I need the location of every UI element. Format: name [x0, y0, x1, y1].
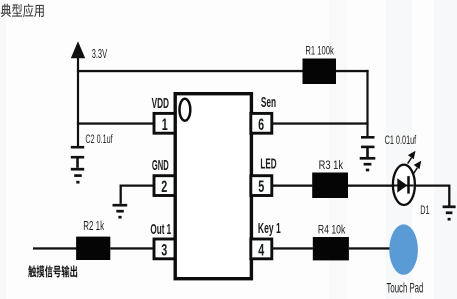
LED D1 cathode bar — [407, 176, 410, 194]
wire: LED to right ground — [415, 186, 450, 206]
capacitor C2 — [71, 147, 84, 168]
power symbol 3.3V — [71, 41, 85, 58]
touch pad — [389, 224, 418, 274]
LED D1 circle — [393, 165, 415, 205]
svg-text:Key 1: Key 1 — [258, 220, 281, 237]
wire: left vertical rail — [77, 56, 79, 146]
svg-text:2: 2 — [161, 178, 167, 196]
ground (pin 2) — [113, 205, 128, 217]
label 触摸信号输出 — [28, 265, 77, 277]
svg-text:4: 4 — [258, 241, 265, 259]
wire: R2 to pin 3 — [110, 247, 154, 249]
svg-text:Touch Pad: Touch Pad — [387, 281, 424, 296]
svg-text:3: 3 — [161, 241, 167, 259]
svg-text:C1 0.01uf: C1 0.01uf — [385, 133, 417, 147]
wire: output line left — [33, 247, 77, 249]
wire: VDD wire to pin 1 — [77, 122, 154, 124]
wire: R4 to touch pad — [349, 247, 390, 249]
capacitor C1 — [361, 137, 375, 157]
title 典型应用 — [1, 4, 44, 18]
wire: Sen to junction — [272, 122, 369, 124]
svg-text:GND: GND — [152, 157, 169, 174]
svg-text:R4 10k: R4 10k — [318, 222, 346, 236]
resistor R1 — [303, 59, 337, 85]
svg-text:R2 1k: R2 1k — [83, 219, 104, 233]
svg-text:5: 5 — [258, 178, 264, 196]
ground (right of D1) — [443, 207, 456, 219]
svg-text:C2 0.1uf: C2 0.1uf — [85, 132, 113, 146]
pin 4 box — [251, 239, 272, 259]
svg-text:R3 1k: R3 1k — [319, 158, 344, 172]
wire: GND pin 2 to ground — [121, 186, 154, 204]
svg-text:LED: LED — [260, 157, 276, 173]
pin 1 indicator circle — [180, 99, 191, 121]
wire: R3 to LED — [348, 185, 393, 187]
svg-text:Sen: Sen — [261, 95, 276, 111]
svg-text:3.3V: 3.3V — [92, 46, 108, 61]
pin 6 box — [251, 113, 272, 133]
pin 3 box — [154, 239, 175, 259]
svg-text:Out 1: Out 1 — [150, 221, 171, 238]
ground (below C1) — [360, 158, 376, 170]
resistor R4 — [313, 237, 349, 260]
pin 2 box — [154, 176, 175, 196]
ground (below C2) — [71, 169, 84, 182]
wire: pin 5 to R3 — [272, 185, 313, 187]
LED D1 diode triangle — [397, 178, 407, 192]
resistor R3 — [312, 173, 348, 199]
wire: pin 4 to R4 — [272, 247, 313, 249]
resistor R2 — [76, 237, 110, 260]
LED D1 internal wire — [394, 185, 414, 187]
svg-text:VDD: VDD — [152, 95, 169, 112]
svg-text:D1: D1 — [420, 203, 430, 217]
wire: top 3.3V rail — [77, 70, 369, 72]
svg-text:1: 1 — [162, 116, 168, 134]
svg-text:6: 6 — [258, 116, 264, 134]
IC body U1 — [175, 94, 251, 279]
pin 1 box — [154, 113, 175, 133]
pin 5 box — [251, 176, 272, 196]
wire: right vertical from rail to C1 — [366, 70, 368, 137]
LED arrows — [408, 152, 421, 173]
svg-text:R1 100k: R1 100k — [305, 44, 333, 58]
